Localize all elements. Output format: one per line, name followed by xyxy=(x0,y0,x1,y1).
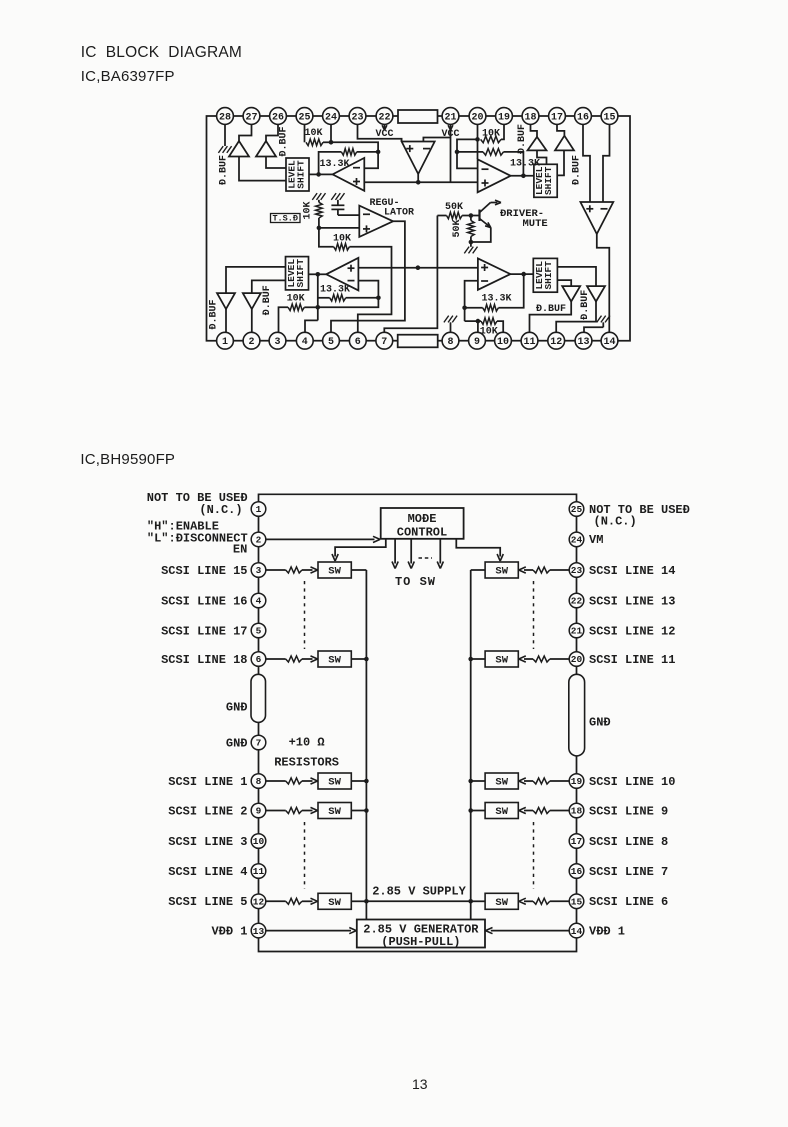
label 0.BUF (pin2 buffer) xyxy=(262,285,273,315)
wire 13.3K D left lead xyxy=(318,297,330,299)
svg-text:7: 7 xyxy=(381,337,387,348)
pin 19 xyxy=(496,108,513,125)
label 2.85 V SUPPLY xyxy=(372,885,466,899)
wire pin25 down xyxy=(304,124,306,142)
label 10K (regulator feedback) xyxy=(333,233,351,244)
wire pin23 to resistor xyxy=(550,569,569,571)
svg-text:2.85 V SUPPLY: 2.85 V SUPPLY xyxy=(372,885,466,899)
wire pin20 down xyxy=(477,124,479,139)
buffer 0.BUF (pin 2) xyxy=(243,293,261,309)
wire regulator feedback to pin 6 xyxy=(349,247,391,332)
wire pin6 to resistor xyxy=(266,658,286,660)
junction (op-amp A inverting node) xyxy=(376,150,381,155)
wire 13.3K to node xyxy=(357,151,378,153)
junction right bus row19 xyxy=(468,779,473,784)
svg-text:1: 1 xyxy=(222,337,228,348)
svg-text:24: 24 xyxy=(325,112,337,123)
pin 21 xyxy=(442,108,459,125)
label 13.3K (op-amp D) xyxy=(320,285,350,296)
ground (10K regulator) xyxy=(312,193,325,200)
label 13.3K (op-amp E) xyxy=(482,293,512,304)
wire pin27 to buffer xyxy=(239,124,252,141)
svg-text:10: 10 xyxy=(253,836,265,847)
wire 13.3K B to output xyxy=(504,152,524,176)
IC outline right border xyxy=(618,116,630,341)
svg-text:Ð.BUF: Ð.BUF xyxy=(209,299,220,329)
wire - input E xyxy=(465,281,478,321)
svg-text:10: 10 xyxy=(497,337,509,348)
wire buffer27 to level shift A xyxy=(239,157,286,181)
pin 4 xyxy=(251,593,266,608)
svg-text:SW: SW xyxy=(495,655,508,667)
svg-text:21: 21 xyxy=(444,112,456,123)
wire pin14 VDD to generator xyxy=(486,928,570,934)
svg-text:SW: SW xyxy=(328,897,341,909)
junction (emitter node) xyxy=(469,240,474,245)
label H ENABLE xyxy=(147,520,219,534)
svg-text:SCSI LINE 4: SCSI LINE 4 xyxy=(168,865,247,879)
pin 20 xyxy=(569,652,584,667)
svg-text:23: 23 xyxy=(571,565,583,576)
svg-text:22: 22 xyxy=(378,112,390,123)
wire main trunk lower xyxy=(358,267,478,269)
pin 28 xyxy=(217,108,234,125)
arrow into SW (left row 3) xyxy=(302,567,318,573)
label SCSI LINE 6 (right) xyxy=(589,895,668,909)
junction left bus row8 xyxy=(364,779,369,784)
unlabeled block bottom (between pins 7,8) xyxy=(398,335,438,348)
svg-text:26: 26 xyxy=(272,112,284,123)
resistor +10ohm (left row 8) xyxy=(286,778,302,784)
wire feedback A up xyxy=(319,152,342,175)
label SCSI LINE 16 (left) xyxy=(161,594,247,608)
label DRIVER- xyxy=(500,208,544,220)
wire pin9 to resistor xyxy=(266,810,286,812)
pin 8 xyxy=(442,332,459,349)
wire 50K node down to pin 7 xyxy=(384,216,437,333)
resistor 13.3K (op-amp B) xyxy=(483,149,504,156)
svg-text:2: 2 xyxy=(256,535,262,546)
svg-text:IC,BA6397FP: IC,BA6397FP xyxy=(81,68,175,85)
wire 10K to junction xyxy=(323,141,331,143)
svg-text:TO SW: TO SW xyxy=(395,575,436,589)
svg-text:SCSI LINE 10: SCSI LINE 10 xyxy=(589,775,675,789)
wire SW to bus (right row 23) xyxy=(471,569,485,571)
label 50K (vertical) xyxy=(452,219,463,237)
svg-text:SCSI LINE 2: SCSI LINE 2 xyxy=(168,804,247,818)
svg-text:VÐÐ 1: VÐÐ 1 xyxy=(211,924,247,938)
resistor 50K horizontal xyxy=(447,212,463,219)
wire pin22 VCC arrow xyxy=(384,124,386,129)
svg-text:Ð.BUF: Ð.BUF xyxy=(219,155,230,185)
wire op-amp C output to pin 14 xyxy=(597,234,610,332)
label SCSI LINE 8 (right) xyxy=(589,835,668,849)
wire right pin chain xyxy=(576,516,578,923)
svg-text:22: 22 xyxy=(571,596,583,607)
resistor +10ohm (left row 6) xyxy=(286,656,302,662)
pin 26 xyxy=(270,108,287,125)
wire 10K to node xyxy=(304,306,318,308)
pin 2 xyxy=(243,332,260,349)
junction (10K pin3 node) xyxy=(316,305,321,310)
resistor 50K vertical xyxy=(468,216,475,243)
svg-text:(N.C.): (N.C.) xyxy=(199,503,242,517)
dashed line left lower xyxy=(304,822,306,889)
label NOT TO BE USEÐ (right) xyxy=(589,503,690,517)
label 10K (pin 3) xyxy=(287,294,305,305)
IC outline left border xyxy=(207,116,217,341)
svg-text:RESISTORS: RESISTORS xyxy=(274,755,339,769)
dashed line left upper xyxy=(304,581,306,649)
junction (op-amp B output) xyxy=(521,174,526,179)
svg-text:CONTROL: CONTROL xyxy=(397,525,447,539)
svg-text:IC,BH9590FP: IC,BH9590FP xyxy=(80,451,175,468)
wire buffer G input xyxy=(557,267,596,286)
svg-text:SHIFT: SHIFT xyxy=(295,259,306,288)
svg-text:SCSI LINE 18: SCSI LINE 18 xyxy=(161,653,247,667)
resistor +10ohm (left row 9) xyxy=(286,808,302,814)
label LATOR xyxy=(384,207,414,218)
svg-text:50K: 50K xyxy=(452,219,463,237)
pin 7 xyxy=(376,332,393,349)
wire to op-amp A output xyxy=(319,173,333,175)
svg-text:Ð.BUF: Ð.BUF xyxy=(278,126,289,156)
svg-text:SCSI LINE 1: SCSI LINE 1 xyxy=(168,775,247,789)
switch SW (right row 23) xyxy=(485,562,518,578)
svg-text:25: 25 xyxy=(298,112,310,123)
svg-text:SCSI LINE 7: SCSI LINE 7 xyxy=(589,865,668,879)
svg-text:VM: VM xyxy=(589,533,603,547)
pin 7 xyxy=(251,735,266,750)
svg-text:SCSI LINE 5: SCSI LINE 5 xyxy=(168,895,247,909)
label SCSI LINE 15 (left) xyxy=(161,564,247,578)
label 0.BUF (pin18 buffer) xyxy=(517,124,528,154)
wire 10K to pin 10 xyxy=(497,321,503,332)
wire pin15 to resistor xyxy=(550,900,569,902)
junction right bus row20 xyxy=(468,657,473,662)
label GNÐ (left) xyxy=(226,736,248,750)
wire buffer2 to pin 2 xyxy=(251,309,253,332)
svg-text:SW: SW xyxy=(495,897,508,909)
junction (op-amp E output) xyxy=(521,272,526,277)
svg-text:13: 13 xyxy=(253,926,265,937)
label SCSI LINE 4 (left) xyxy=(168,865,247,879)
wire buffer1 to pin 1 xyxy=(225,309,227,332)
pin 1 xyxy=(251,502,266,517)
pin 5 xyxy=(323,332,340,349)
wire pin28 to ground xyxy=(224,124,226,146)
pin 24 xyxy=(569,532,584,547)
resistor 10K (pin 3) xyxy=(288,304,304,311)
wire main trunk upper xyxy=(364,181,478,183)
label VCC (pin 22) xyxy=(375,129,393,140)
wire pin12 to resistor xyxy=(266,900,286,902)
svg-text:15: 15 xyxy=(571,897,583,908)
ground (capacitor) xyxy=(331,193,344,200)
svg-text:(PUSH-PULL): (PUSH-PULL) xyxy=(381,935,460,949)
label 50K (horizontal) xyxy=(445,202,463,213)
wire SW to bus (right row 15) xyxy=(471,900,485,902)
wire node across xyxy=(318,298,379,308)
dashed line right lower xyxy=(533,822,535,889)
junction right bus supply xyxy=(468,899,473,904)
svg-text:+10 Ω: +10 Ω xyxy=(289,735,325,749)
svg-text:18: 18 xyxy=(524,112,536,123)
switch SW (left row 3) xyxy=(318,562,351,578)
svg-text:10K: 10K xyxy=(303,201,314,219)
pin 14 xyxy=(569,923,584,938)
svg-text:1: 1 xyxy=(256,504,262,515)
pin 11 xyxy=(251,864,266,879)
resistor 10K (pins 20-19) xyxy=(481,136,501,143)
junction (LS-A output) xyxy=(316,172,321,177)
label SCSI LINE 18 (left) xyxy=(161,653,247,667)
switch SW (right row 18) xyxy=(485,803,518,819)
label L DISCONNECT xyxy=(147,531,248,545)
svg-text:13: 13 xyxy=(577,337,589,348)
svg-text:14: 14 xyxy=(571,926,583,937)
label VM (right) xyxy=(589,533,603,547)
wire buffer F to pin 11 xyxy=(530,302,572,333)
op-amp centre xyxy=(402,142,435,175)
svg-text:SCSI LINE 3: SCSI LINE 3 xyxy=(168,835,247,849)
svg-text:4: 4 xyxy=(256,596,262,607)
junction (op-amp B inverting node) xyxy=(455,150,460,155)
wire mode control to SW left xyxy=(332,539,386,561)
op-amp D xyxy=(326,258,358,291)
resistor 10K vertical (regulator) xyxy=(316,200,323,228)
wire SW to bus (right row 18) xyxy=(471,810,485,812)
wire pin15 to op-amp C xyxy=(603,124,610,202)
switch SW (right row 15) xyxy=(485,893,518,909)
capacitor C (regulator) xyxy=(331,200,344,215)
svg-text:LATOR: LATOR xyxy=(384,207,414,218)
pin 9 xyxy=(469,332,486,349)
svg-text:SCSI LINE 11: SCSI LINE 11 xyxy=(589,653,675,667)
wire 10K to pin19 xyxy=(501,124,504,139)
label NOT TO BE USED (left) xyxy=(147,491,248,505)
svg-text:13.3K: 13.3K xyxy=(320,285,350,296)
svg-text:Ð.BUF: Ð.BUF xyxy=(571,155,582,185)
wire 2.85V supply xyxy=(366,900,470,902)
svg-text:20: 20 xyxy=(471,112,483,123)
wire pin19 to resistor xyxy=(550,780,569,782)
transistor Q1 DRIVER-MUTE xyxy=(471,200,501,242)
svg-text:SHIFT: SHIFT xyxy=(543,166,554,195)
svg-text:2: 2 xyxy=(248,337,254,348)
op-amp E xyxy=(478,258,511,289)
svg-text:SHIFT: SHIFT xyxy=(543,261,554,290)
label TO SW xyxy=(395,575,436,589)
svg-text:VÐÐ 1: VÐÐ 1 xyxy=(589,924,625,938)
svg-text:13.3K: 13.3K xyxy=(482,293,512,304)
pin 23 xyxy=(349,108,366,125)
wire op-amp B output xyxy=(511,175,534,177)
resistor 13.3K (op-amp E) xyxy=(483,305,499,312)
pin 2 xyxy=(251,532,266,547)
pin 8 xyxy=(251,774,266,789)
pin 23 xyxy=(569,563,584,578)
label RESISTORS xyxy=(274,755,339,769)
wire pin16 to op-amp C xyxy=(583,124,590,202)
title IC,BH9590FP xyxy=(80,451,175,468)
label 10K (pins 9-10) xyxy=(480,326,498,337)
svg-text:Ð.BUF: Ð.BUF xyxy=(517,124,528,154)
junction (op-amp D inverting node) xyxy=(376,296,381,301)
svg-text:17: 17 xyxy=(571,836,583,847)
label SCSI LINE 2 (left) xyxy=(168,804,247,818)
svg-text:10K: 10K xyxy=(304,128,322,139)
wire output node down xyxy=(317,274,319,320)
svg-text:EN: EN xyxy=(233,542,247,556)
wire bottom pin chain 8-14 xyxy=(438,340,601,342)
label 10K (pin 25) xyxy=(304,128,322,139)
pin 1 xyxy=(217,332,234,349)
label (N.C.) (left) xyxy=(199,503,242,517)
wire buffer2 input xyxy=(252,280,286,293)
label VÐÐ 1 (right) xyxy=(589,924,625,938)
page number 13 xyxy=(412,1076,428,1092)
resistor 13.3K (op-amp A) xyxy=(341,149,356,156)
wire SW to bus (left row 9) xyxy=(351,810,366,812)
svg-text:Ð.BUF: Ð.BUF xyxy=(262,285,273,315)
svg-text:16: 16 xyxy=(577,112,589,123)
switch SW (left row 6) xyxy=(318,651,351,667)
wire regulator output to pin 5 xyxy=(331,221,405,332)
svg-text:7: 7 xyxy=(256,738,262,749)
svg-text:27: 27 xyxy=(245,112,257,123)
wire left SW bus xyxy=(365,570,367,901)
svg-text:SCSI LINE 14: SCSI LINE 14 xyxy=(589,564,675,578)
wire pin23 to centre op-amp xyxy=(358,124,402,141)
arrow (pin21 VCC) xyxy=(448,125,453,130)
junction left bus row9 xyxy=(364,808,369,813)
arrow into SW (left row 6) xyxy=(302,656,318,662)
pin 11 xyxy=(521,332,538,349)
svg-text:8: 8 xyxy=(256,776,262,787)
pin 27 xyxy=(243,108,260,125)
svg-text:8: 8 xyxy=(447,337,453,348)
label 10K (regulator vertical) xyxy=(303,201,314,219)
svg-text:SW: SW xyxy=(495,566,508,578)
label EN xyxy=(233,542,247,556)
svg-text:50K: 50K xyxy=(445,202,463,213)
junction (under pin 24) xyxy=(329,140,334,145)
wire 50K left xyxy=(437,215,446,217)
wire mode control to SW right xyxy=(456,539,503,561)
wire left pin chain xyxy=(258,516,260,923)
junction (trunk lower) xyxy=(416,265,421,270)
buffer 0.BUF (pin 1) xyxy=(217,293,235,309)
wire SW to bus (left row 12) xyxy=(351,900,366,902)
wire pin21 VCC line xyxy=(450,124,452,182)
block MODE CONTROL xyxy=(381,508,464,539)
buffer 0.BUF (pin 26) xyxy=(256,141,276,157)
arrow into SW (left row 12) xyxy=(302,898,318,904)
buffer 0.BUF (pin 17) xyxy=(555,136,574,151)
op-amp A xyxy=(333,158,365,191)
svg-text:SCSI LINE 9: SCSI LINE 9 xyxy=(589,804,668,818)
pin 16 xyxy=(575,108,592,125)
svg-text:SW: SW xyxy=(328,806,341,818)
pin 21 xyxy=(569,623,584,638)
wire pin8 to resistor xyxy=(266,780,286,782)
junction left bus supply xyxy=(364,899,369,904)
unlabeled block top (between pins 22,21) xyxy=(398,110,438,123)
pin 4 xyxy=(296,332,313,349)
label SCSI LINE 9 (right) xyxy=(589,804,668,818)
GND tab left xyxy=(251,674,266,722)
label (N.C.) (right) xyxy=(594,514,637,528)
wire pin20 node to op-amp B top xyxy=(477,139,479,159)
svg-text:23: 23 xyxy=(351,112,363,123)
pin 14 xyxy=(601,332,618,349)
svg-text:6: 6 xyxy=(256,654,262,665)
wire top pin chain 28-22 xyxy=(233,115,398,117)
svg-text:IC BLOCK DIAGRAM: IC BLOCK DIAGRAM xyxy=(81,44,242,61)
pin 20 xyxy=(469,108,486,125)
wire pin20 to resistor xyxy=(550,658,569,660)
wire buffer1 input xyxy=(226,267,286,293)
svg-text:18: 18 xyxy=(571,806,583,817)
pin 3 xyxy=(269,332,286,349)
svg-text:24: 24 xyxy=(571,535,583,546)
resistor +10ohm (right row 20) xyxy=(533,656,550,662)
svg-text:11: 11 xyxy=(253,866,265,877)
svg-text:SW: SW xyxy=(328,655,341,667)
svg-text:SW: SW xyxy=(328,777,341,789)
pin 17 xyxy=(569,834,584,849)
svg-text:20: 20 xyxy=(571,654,583,665)
svg-text:11: 11 xyxy=(523,337,535,348)
resistor +10ohm (left row 12) xyxy=(286,898,302,904)
ground (transistor emitter) xyxy=(464,242,477,253)
wire pin2 EN to mode control xyxy=(266,536,380,542)
wire buffer26 to level shift A xyxy=(266,157,286,169)
wire node to 13.3K E xyxy=(465,307,483,309)
arrow mode control to sw 3 xyxy=(437,539,443,569)
wire supply to generator left xyxy=(365,901,367,919)
svg-text:SCSI LINE 13: SCSI LINE 13 xyxy=(589,594,675,608)
svg-text:6: 6 xyxy=(355,337,361,348)
pin 10 xyxy=(251,834,266,849)
label 13.3K (op-amp A) xyxy=(320,159,350,170)
label 10K (pins 20-19) xyxy=(482,129,500,140)
label REGU- xyxy=(370,198,400,209)
level shift U-D xyxy=(533,258,557,292)
wire pin18 to resistor xyxy=(550,810,569,812)
wire bottom border xyxy=(259,938,577,952)
wire pin13 to ground xyxy=(584,327,603,332)
svg-text:13.3K: 13.3K xyxy=(320,159,350,170)
resistor 10K (regulator feedback) xyxy=(334,244,350,251)
resistor 10K (pins 9-10) xyxy=(481,318,497,325)
op-amp B xyxy=(478,159,511,192)
svg-text:19: 19 xyxy=(571,776,583,787)
wire pin24 down xyxy=(330,124,332,142)
buffer 0.BUF (pin 27) xyxy=(229,141,249,157)
junction (transistor base node) xyxy=(469,213,474,218)
pin 18 xyxy=(522,108,539,125)
wire op-amp E output xyxy=(510,273,533,275)
label 0.BUF (pin1 buffer) xyxy=(209,299,220,329)
wire node to - input D xyxy=(358,281,378,298)
label +10 ohm xyxy=(289,735,325,749)
buffer 0.BUF (pin 18) xyxy=(528,137,547,151)
svg-text:14: 14 xyxy=(603,337,615,348)
pin 10 xyxy=(495,332,512,349)
svg-text:MOÐE: MOÐE xyxy=(408,512,437,526)
